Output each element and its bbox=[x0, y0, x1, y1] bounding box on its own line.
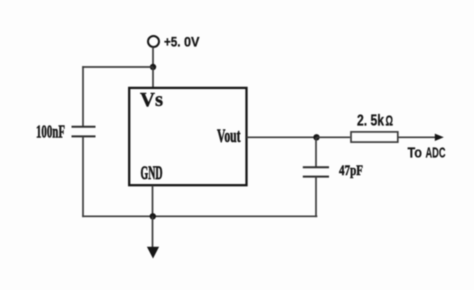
ground stem wire bbox=[152, 216, 154, 248]
svg-text:Ω: Ω bbox=[386, 114, 394, 130]
wire left rail upper segment bbox=[82, 66, 84, 126]
svg-text:Vout: Vout bbox=[217, 127, 241, 147]
svg-text:Vs: Vs bbox=[140, 90, 163, 111]
capacitor C1 100nF bbox=[72, 127, 96, 137]
capacitor C2 47pF bbox=[303, 167, 329, 176]
ground arrow symbol bbox=[147, 247, 159, 259]
wire node B down to C2 bbox=[315, 137, 317, 167]
wire from terminal to node A bbox=[152, 47, 154, 67]
svg-text:2. 5k: 2. 5k bbox=[357, 113, 384, 130]
wire C2 down to bottom rail bbox=[315, 177, 317, 218]
svg-text:47pF: 47pF bbox=[339, 163, 363, 179]
node C junction dot bbox=[150, 213, 156, 219]
svg-text:To: To bbox=[408, 145, 423, 162]
svg-text:+5.: +5. bbox=[164, 34, 181, 50]
svg-text:100nF: 100nF bbox=[36, 121, 65, 141]
wire IC GND pin to node C bbox=[152, 186, 154, 217]
wire node B to resistor R1 bbox=[317, 136, 351, 138]
wire from node A down to IC Vs pin bbox=[152, 67, 154, 88]
svg-text:GND: GND bbox=[141, 163, 163, 184]
IC U1 body bbox=[129, 88, 246, 185]
wire Vout to node B bbox=[247, 136, 317, 138]
svg-text:ADC: ADC bbox=[426, 145, 446, 162]
power terminal circle +5.0V bbox=[148, 36, 159, 47]
bottom ground rail wire bbox=[82, 215, 317, 217]
wire left rail lower segment bbox=[82, 136, 84, 217]
wire resistor to ADC arrow bbox=[398, 136, 436, 138]
svg-text:0V: 0V bbox=[184, 34, 200, 50]
wire from node A left to C1 branch bbox=[82, 66, 153, 68]
node B junction dot bbox=[313, 134, 319, 140]
arrowhead to ADC bbox=[435, 134, 444, 141]
node A junction dot bbox=[150, 64, 156, 70]
resistor R1 body bbox=[351, 132, 398, 142]
